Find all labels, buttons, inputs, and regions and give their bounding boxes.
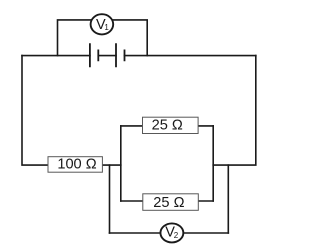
svg-text:25 Ω: 25 Ω xyxy=(153,195,184,211)
svg-text:2: 2 xyxy=(174,231,179,240)
svg-text:100 Ω: 100 Ω xyxy=(57,156,96,172)
svg-text:25 Ω: 25 Ω xyxy=(152,117,183,133)
svg-text:1: 1 xyxy=(104,23,109,32)
